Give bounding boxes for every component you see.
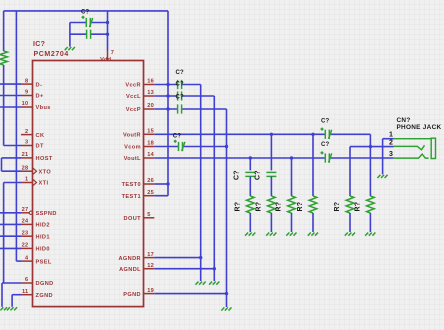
svg-text:C?: C? — [255, 170, 262, 180]
wire column 1 lower — [249, 213, 251, 232]
ground column 3 — [286, 233, 296, 236]
wire column 1 middle — [249, 176, 251, 196]
svg-text:CN?: CN? — [397, 117, 411, 124]
pin 7 Vdd stub — [107, 51, 109, 61]
pin stub HID0 — [21, 247, 33, 249]
svg-text:VccP: VccP — [126, 107, 141, 113]
junction filter column 2 — [270, 133, 273, 136]
wire HID2 from left edge — [0, 223, 21, 225]
resistor R? load 3 — [288, 196, 296, 213]
svg-text:SSPND: SSPND — [36, 211, 57, 217]
resistor R? load 4 — [309, 196, 317, 213]
ground column 4 — [308, 233, 318, 236]
wire VccR row — [154, 84, 177, 86]
svg-text:R?: R? — [276, 202, 283, 212]
pin stub AGNDL — [144, 268, 155, 270]
wire Vdd pin7 drop — [107, 11, 109, 51]
wire Vbus from left edge — [0, 106, 21, 108]
wire D+ from left edge — [0, 95, 21, 97]
pin stub VCCR — [144, 84, 155, 86]
ground VccP/PGND — [221, 307, 231, 310]
pin stub CK — [21, 134, 33, 136]
wire VccL row — [154, 95, 177, 97]
wire vertical rail to PSEL — [15, 11, 17, 261]
svg-text:9: 9 — [25, 90, 28, 96]
svg-text:PSEL: PSEL — [36, 259, 52, 265]
wire VoutR row — [154, 133, 325, 135]
svg-text:XTI: XTI — [39, 181, 49, 187]
pin stub VCCL — [144, 95, 155, 97]
svg-text:DGND: DGND — [36, 281, 54, 287]
wire XTO row — [2, 170, 22, 172]
pin stub XTO — [21, 170, 33, 172]
capacitor C? bypass VccL — [178, 91, 182, 100]
capacitor C? bypass VccR — [178, 80, 182, 89]
pin stub XTI — [21, 182, 33, 184]
wire D- from left edge — [0, 83, 21, 85]
svg-text:HID1: HID1 — [36, 234, 50, 240]
svg-text:PGND: PGND — [123, 292, 141, 298]
svg-text:AGNDR: AGNDR — [118, 256, 141, 262]
svg-text:8: 8 — [25, 78, 28, 84]
wire AGNDR row — [154, 257, 200, 259]
svg-text:AGNDL: AGNDL — [119, 267, 141, 273]
resistor R? load 1 — [247, 196, 255, 213]
svg-text:D-: D- — [36, 82, 43, 88]
resistor R? (pull-up on DT line) — [0, 51, 7, 65]
svg-text:VoutL: VoutL — [124, 156, 142, 162]
svg-text:C?: C? — [176, 81, 185, 87]
svg-text:C?: C? — [176, 70, 185, 76]
svg-text:2: 2 — [389, 140, 393, 147]
wire Vdd top rail — [4, 10, 168, 12]
wire column 4 lower — [312, 213, 314, 232]
svg-text:3: 3 — [25, 140, 28, 146]
pin stub TEST1 — [144, 195, 155, 197]
pin stub HID2 — [21, 223, 33, 225]
wire TEST1 row — [154, 195, 168, 197]
svg-text:C?: C? — [321, 118, 330, 124]
svg-text:IC?: IC? — [33, 41, 45, 48]
pin stub VBUS — [21, 106, 33, 108]
svg-text:7: 7 — [111, 50, 114, 56]
pin stub VOUTL — [144, 157, 155, 159]
wire column 2 middle — [270, 176, 272, 196]
junction jack tip node — [369, 145, 372, 148]
resistor R? load left — [346, 196, 354, 213]
svg-text:16: 16 — [147, 79, 154, 85]
svg-text:6: 6 — [25, 277, 28, 283]
pin stub DP — [21, 95, 33, 97]
svg-text:26: 26 — [147, 178, 154, 184]
svg-text:27: 27 — [22, 207, 29, 213]
op-amp U1 IC? PCM2704 body — [33, 61, 144, 307]
svg-text:TEST1: TEST1 — [122, 194, 141, 200]
svg-text:10: 10 — [22, 101, 29, 107]
svg-text:28: 28 — [22, 165, 29, 171]
wire resistor R? top lead from rail — [3, 11, 5, 51]
wire column 3 upper — [291, 158, 293, 196]
capacitor C? ceramic on Vdd — [87, 30, 91, 39]
pin stub TEST0 — [144, 183, 155, 185]
wire left resistor to ground — [349, 213, 351, 232]
ground column 2 — [266, 233, 276, 236]
ground jack sleeve — [377, 175, 387, 178]
wire column 1 upper — [249, 158, 251, 170]
svg-text:PCM2704: PCM2704 — [34, 51, 69, 58]
wire column 3 lower — [291, 213, 293, 232]
pin stub HID1 — [21, 235, 33, 237]
capacitor C? electrolytic on Vdd — [82, 16, 93, 27]
svg-text:13: 13 — [147, 90, 154, 96]
clock mark XTI — [33, 179, 37, 185]
svg-text:CK: CK — [36, 133, 45, 139]
svg-text:VccL: VccL — [126, 94, 141, 100]
svg-text:ZGND: ZGND — [36, 293, 53, 299]
wire Vcom row — [154, 146, 178, 148]
svg-text:R?: R? — [355, 202, 362, 212]
capacitor C? filter 2 — [266, 172, 276, 176]
svg-text:2: 2 — [25, 129, 28, 135]
junction Vcom cap — [225, 145, 228, 148]
wire VoutL row — [154, 157, 325, 159]
pin stub PSEL — [21, 260, 33, 262]
junction filter column 3 — [290, 156, 293, 159]
junction filter column 1 — [249, 156, 252, 159]
svg-text:R?: R? — [256, 202, 263, 212]
svg-text:XTO: XTO — [39, 169, 52, 175]
svg-text:VccR: VccR — [125, 83, 141, 89]
pin stub ZGND — [21, 294, 33, 296]
junction AGNDR — [199, 256, 202, 259]
svg-text:HOST: HOST — [36, 156, 53, 162]
svg-text:TEST0: TEST0 — [122, 182, 141, 188]
svg-text:19: 19 — [147, 288, 154, 294]
junction AGNDL — [213, 267, 216, 270]
svg-text:C?: C? — [176, 94, 185, 100]
wire SSPND from left edge — [0, 212, 21, 214]
wire jack sleeve to ground — [382, 139, 384, 175]
wire right resistor to ground — [369, 213, 371, 232]
ground column 1 — [245, 233, 255, 236]
junction VccL — [166, 94, 169, 97]
junction vdd cap bottom — [106, 33, 109, 36]
svg-text:D+: D+ — [36, 94, 44, 100]
pin stub SSPND — [21, 212, 29, 214]
capacitor C? bypass VccP — [178, 104, 182, 113]
svg-text:Vdd: Vdd — [100, 57, 112, 63]
svg-text:20: 20 — [147, 103, 154, 109]
capacitor C? output coupling left — [321, 151, 332, 162]
svg-text:14: 14 — [147, 152, 154, 158]
svg-text:DOUT: DOUT — [124, 216, 142, 222]
clock mark XTO — [33, 168, 37, 174]
svg-text:PHONE JACK: PHONE JACK — [397, 124, 442, 131]
wire column 2 lower — [270, 213, 272, 232]
wire column 2 upper — [270, 134, 272, 170]
junction VccR — [166, 83, 169, 86]
ground VccL/AGNDL — [209, 282, 219, 285]
pin stub DOUT — [144, 217, 155, 219]
svg-text:R?: R? — [334, 202, 341, 212]
svg-text:Vcom: Vcom — [124, 145, 141, 151]
svg-text:C?: C? — [234, 170, 241, 180]
ground right resistor — [365, 233, 375, 236]
svg-text:1: 1 — [389, 131, 393, 138]
wire DGND down — [1, 283, 3, 307]
pin stub VCCP — [144, 108, 155, 110]
ground DGND — [0, 307, 7, 310]
wire AGNDL row — [154, 268, 214, 270]
wire resistor bottom lead down to DT — [3, 65, 5, 146]
pin stub DT — [21, 145, 33, 147]
svg-text:DT: DT — [36, 144, 44, 150]
svg-text:21: 21 — [22, 152, 29, 158]
svg-text:23: 23 — [22, 230, 29, 236]
svg-text:18: 18 — [147, 141, 154, 147]
svg-text:HID0: HID0 — [36, 247, 50, 253]
resistor R? load 2 — [268, 196, 276, 213]
wire VccR bypass vertical to ground — [200, 85, 202, 282]
wire HID1 from left edge — [0, 235, 21, 237]
wire ZGND row — [12, 294, 21, 296]
wire PGND row — [154, 293, 226, 295]
wire VccL bypass vertical to ground — [213, 96, 215, 281]
svg-text:17: 17 — [147, 252, 154, 258]
wire vdd cap bottom row — [70, 33, 87, 35]
pin stub AGNDR — [144, 257, 155, 259]
pin stub DM — [21, 83, 33, 85]
wire jack tip row — [350, 146, 394, 148]
capacitor C? filter 1 — [245, 172, 255, 176]
wire column 4 upper — [312, 134, 314, 196]
svg-text:25: 25 — [147, 190, 154, 196]
wire HOST row — [2, 157, 22, 159]
wire vdd caps to ground — [69, 23, 71, 47]
wire VoutR after cap corner down — [369, 134, 371, 196]
wire XTI row — [4, 182, 21, 184]
ground vdd caps — [65, 47, 75, 50]
junction vdd cap top — [106, 21, 109, 24]
wire HID0 from left edge — [0, 247, 21, 249]
wire to pin PSEL — [16, 260, 21, 262]
wire TEST0 row — [154, 183, 168, 185]
svg-text:5: 5 — [147, 212, 150, 218]
resistor R? load right — [367, 196, 375, 213]
pin stub HOST — [21, 157, 33, 159]
svg-text:Vbus: Vbus — [36, 105, 51, 111]
wire XTI down to DGND net — [3, 183, 5, 284]
wire Vdd distribution vertical — [167, 11, 169, 196]
junction PGND — [225, 292, 228, 295]
wire ZGND down — [11, 295, 13, 307]
pin stub PGND — [144, 293, 155, 295]
svg-text:VoutR: VoutR — [123, 133, 141, 139]
svg-text:R?: R? — [235, 202, 242, 212]
svg-text:C?: C? — [321, 142, 330, 148]
pin stub VOUTR — [144, 133, 155, 135]
capacitor C? output coupling right — [321, 128, 332, 139]
wire vdd cap top row — [70, 22, 86, 24]
wire HOST to XTO vertical — [1, 158, 3, 171]
junction VccP — [166, 107, 169, 110]
wire DGND row — [2, 282, 21, 284]
wire VccP row — [154, 108, 177, 110]
pin stub VCOM — [144, 146, 155, 148]
svg-text:C?: C? — [173, 133, 182, 139]
svg-text:3: 3 — [389, 151, 393, 158]
svg-text:R?: R? — [297, 202, 304, 212]
svg-text:C?: C? — [81, 10, 90, 16]
wire VccP bypass vertical to ground — [226, 109, 228, 307]
svg-text:15: 15 — [147, 129, 154, 135]
svg-text:22: 22 — [22, 243, 29, 249]
wire jack sleeve — [383, 138, 394, 140]
svg-text:11: 11 — [22, 289, 28, 295]
pin stub DGND — [21, 282, 33, 284]
ground ZGND — [7, 307, 17, 310]
ground left resistor — [345, 233, 355, 236]
svg-text:24: 24 — [22, 219, 29, 225]
junction filter column 4 — [311, 133, 314, 136]
wire left resistor column down — [349, 147, 351, 196]
capacitor C? Vcom electrolytic — [174, 140, 185, 151]
svg-text:HID2: HID2 — [36, 223, 50, 229]
junction TEST0 — [166, 182, 169, 185]
ground VccR/AGNDR — [196, 282, 206, 285]
svg-text:12: 12 — [147, 263, 154, 269]
connector CN? PHONE JACK symbol — [394, 138, 436, 158]
svg-text:1: 1 — [25, 177, 28, 183]
wire to pin DT — [4, 145, 21, 147]
